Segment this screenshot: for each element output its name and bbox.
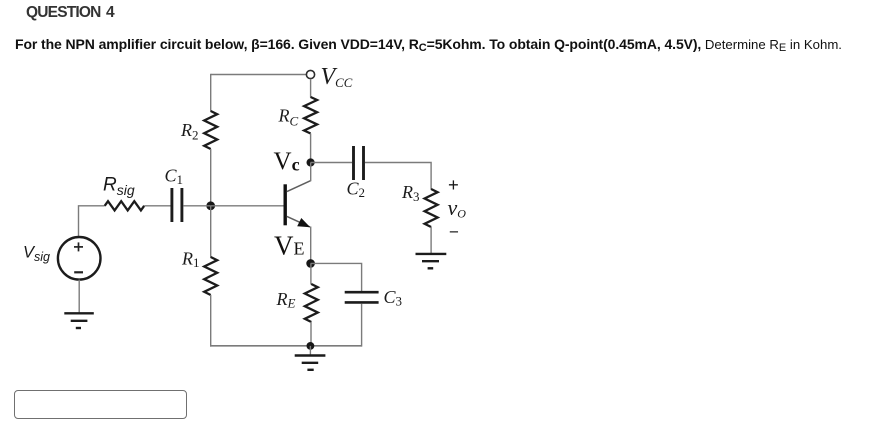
wire C1 to junction — [183, 205, 210, 207]
resistor R2 — [204, 111, 217, 149]
answer input box — [14, 390, 187, 419]
label source minus — [74, 271, 83, 273]
svg-text:+: + — [448, 174, 459, 195]
resistor R1 — [204, 257, 217, 295]
source Vsig — [58, 237, 101, 280]
node base junction — [206, 201, 215, 210]
capacitor C3 — [345, 292, 379, 302]
svg-text:−: − — [449, 223, 459, 242]
wire VE to RE — [310, 263, 312, 284]
wire source top — [79, 206, 105, 237]
label source plus — [74, 242, 83, 251]
svg-text:C3: C3 — [384, 287, 403, 309]
ground main — [295, 356, 326, 370]
wire C3 to bottom rail — [361, 304, 363, 347]
svg-text:RC: RC — [278, 106, 299, 129]
problem statement — [15, 36, 842, 52]
question header — [26, 4, 114, 22]
wire VE to C3 — [311, 263, 362, 291]
wire R2 to junction — [210, 149, 212, 206]
svg-text:vO: vO — [448, 195, 467, 221]
wire source to ground — [78, 280, 80, 314]
node Vc — [307, 158, 315, 166]
svg-text:Vc: Vc — [274, 148, 300, 175]
svg-text:C2: C2 — [347, 179, 366, 201]
svg-text:Vsig: Vsig — [23, 244, 50, 265]
wire emitter stub — [310, 227, 312, 264]
svg-text:VE: VE — [274, 231, 305, 261]
svg-text:C1: C1 — [165, 166, 184, 188]
wire junction to R1 — [210, 206, 212, 258]
wire RC to Vc — [310, 134, 312, 163]
svg-text:Rsig: Rsig — [103, 175, 135, 199]
capacitor C1 — [172, 188, 182, 222]
wire R3 to ground — [430, 227, 432, 253]
transistor Q1 — [284, 181, 311, 228]
resistor RE — [305, 284, 318, 322]
wire bottom rail — [210, 345, 362, 347]
wire left rail upper — [210, 74, 212, 112]
wire collector stub — [310, 163, 312, 182]
wire C2 to R3 — [365, 163, 431, 190]
wire top rail — [211, 74, 307, 76]
resistor Rsig — [105, 201, 145, 210]
resistor R3 — [425, 189, 438, 227]
ground output — [416, 254, 447, 268]
wire RE to bottom node — [310, 322, 312, 346]
wire R1 to bottom rail — [210, 295, 212, 347]
svg-text:RE: RE — [276, 289, 296, 311]
resistor RC — [304, 97, 317, 134]
node emitter ground — [307, 342, 315, 350]
svg-text:VCC: VCC — [321, 64, 353, 90]
wire Rsig to C1 — [144, 205, 170, 207]
capacitor C2 — [354, 146, 364, 180]
svg-text:R2: R2 — [180, 120, 199, 143]
svg-text:R3: R3 — [401, 182, 420, 204]
wire base — [211, 205, 284, 207]
wire Vc to C2 — [311, 162, 352, 164]
ground source — [64, 313, 94, 328]
node VE — [306, 259, 315, 268]
wire ground stem — [309, 346, 311, 356]
wire Vcc stem — [310, 79, 312, 98]
power terminal Vcc — [306, 70, 314, 78]
svg-text:R1: R1 — [181, 249, 200, 271]
